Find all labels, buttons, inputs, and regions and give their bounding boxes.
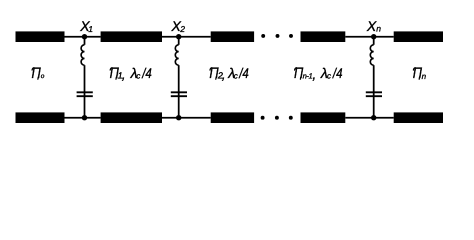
svg-text:n: n <box>422 72 427 81</box>
node X2 junction dot bottom <box>176 115 181 120</box>
capacitor C1 <box>77 92 93 96</box>
svg-text:/4: /4 <box>141 65 152 81</box>
svg-text:c: c <box>136 71 140 80</box>
wire bottom between eta1 and eta2 <box>162 117 211 119</box>
svg-text:o: o <box>41 73 45 80</box>
eta glyph entry hook and descender <box>413 68 419 80</box>
svg-text:1: 1 <box>88 24 93 34</box>
node X1 junction dot top <box>82 34 87 39</box>
wire X1 branch upper stub <box>84 37 86 45</box>
inductor L2 <box>175 45 178 65</box>
transmission line section eta0 bottom conductor <box>16 112 65 123</box>
eta glyph entry hook and descender <box>295 68 301 80</box>
node X1 junction dot bottom <box>82 115 87 120</box>
transmission line section eta0 top conductor <box>16 31 65 42</box>
svg-text:,: , <box>312 66 316 82</box>
node label Xn <box>366 18 381 34</box>
eta glyph entry hook and descender <box>32 68 38 80</box>
label etan <box>413 65 427 82</box>
capacitor C2 <box>171 92 187 96</box>
wire top between eta(n-1) and etan <box>345 36 393 38</box>
node Xn junction dot bottom <box>371 115 376 120</box>
svg-text:,: , <box>222 66 226 82</box>
inductor Ln <box>370 45 373 65</box>
svg-text:c: c <box>234 71 238 80</box>
svg-text:2: 2 <box>179 24 185 34</box>
transmission line section eta(n-1) top conductor <box>301 31 346 42</box>
transmission line section eta(n-1) bottom conductor <box>301 112 346 123</box>
transmission line section eta2 bottom conductor <box>211 112 254 123</box>
wire X2 branch lower <box>178 65 180 118</box>
wire X1 branch lower <box>84 65 86 118</box>
svg-text:n: n <box>376 23 381 33</box>
svg-text:/4: /4 <box>238 65 249 81</box>
wire Xn branch upper stub <box>373 37 375 45</box>
wire X2 branch upper stub <box>178 37 180 45</box>
svg-text:c: c <box>327 71 331 80</box>
eta glyph entry hook and descender <box>110 68 116 80</box>
transmission line section etan bottom conductor <box>394 112 443 123</box>
transmission line section eta2 top conductor <box>211 31 254 42</box>
wire Xn branch lower <box>373 65 375 118</box>
label eta0 <box>32 65 45 82</box>
svg-text:n-1: n-1 <box>303 71 313 80</box>
label eta1 lambda/4 <box>110 65 152 82</box>
svg-text:/4: /4 <box>332 65 343 81</box>
node Xn junction dot top <box>371 34 376 39</box>
label eta(n-1) lambda/4 <box>294 65 343 82</box>
label eta2 lambda/4 <box>209 65 249 82</box>
svg-text:,: , <box>122 66 126 82</box>
wire bottom between eta(n-1) and etan <box>345 117 393 119</box>
wire bottom between eta0 and eta1 <box>65 117 101 119</box>
eta glyph entry hook and descender <box>210 68 216 80</box>
transmission line section eta1 top conductor <box>101 31 162 42</box>
transmission line section eta1 bottom conductor <box>101 112 162 123</box>
ellipsis dots bottom row <box>261 116 293 120</box>
capacitor Cn <box>366 92 382 96</box>
transmission line section etan top conductor <box>394 31 443 42</box>
inductor L1 <box>81 45 84 65</box>
wire top between eta1 and eta2 <box>162 36 211 38</box>
wire top between eta0 and eta1 <box>65 36 101 38</box>
ellipsis dots top row <box>261 34 293 38</box>
node label X2 <box>171 18 186 34</box>
node label X1 <box>79 18 93 34</box>
node X2 junction dot top <box>176 34 181 39</box>
